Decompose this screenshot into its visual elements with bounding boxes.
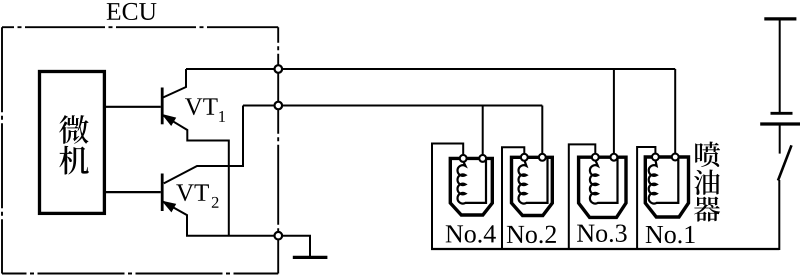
node: No.2 right terminal bbox=[539, 154, 546, 161]
label No.3 bbox=[577, 224, 627, 242]
injector No.2 body bbox=[512, 157, 553, 215]
node: ECU terminal 2 bbox=[275, 102, 283, 110]
node: ECU terminal 1 bbox=[275, 65, 283, 73]
wire: common bottom bus of injectors bbox=[431, 248, 779, 250]
injector No.4 body bbox=[450, 158, 492, 215]
node: No.4 left terminal bbox=[460, 155, 467, 162]
microcomputer box (微机) bbox=[40, 72, 105, 214]
wire: drop to No.1 injector bbox=[674, 69, 676, 157]
injector coil No.2 bbox=[519, 158, 548, 203]
injector coil No.3 bbox=[590, 158, 618, 203]
label No.1 bbox=[646, 226, 695, 244]
wire: feed for injector No.4 (left riser and top link) bbox=[432, 144, 463, 250]
injector No.3 body bbox=[579, 157, 626, 217]
wire: drop to No.2 injector bbox=[541, 106, 543, 158]
wire: second bus (VT2 collector rail) bbox=[243, 104, 542, 106]
node: No.1 left terminal bbox=[652, 154, 659, 161]
wire: feed for injector No.2 (left riser and top link) bbox=[502, 147, 524, 249]
switch S (ignition) bbox=[778, 145, 792, 180]
wire: switch to bottom bus bbox=[778, 180, 780, 250]
label 微机 (microcomputer) bbox=[59, 115, 89, 174]
node: No.3 left terminal bbox=[592, 154, 599, 161]
transistor VT2 bbox=[104, 106, 274, 236]
wire: positive supply stub (T terminal) bbox=[764, 19, 796, 113]
node: No.4 right terminal bbox=[479, 155, 486, 162]
node: No.3 right terminal bbox=[610, 154, 617, 161]
label VT1 bbox=[185, 98, 225, 122]
ECU enclosure (dash-dot box) bbox=[2, 27, 278, 273]
label 喷油器 (injector) bbox=[694, 142, 720, 222]
transistor VT1 bbox=[104, 69, 228, 236]
wire: feed for injector No.1 (left riser and top link) bbox=[637, 147, 655, 249]
node: No.1 right terminal bbox=[672, 154, 679, 161]
battery GB bbox=[760, 113, 800, 153]
wire: top bus (VT1 collector rail) bbox=[186, 68, 675, 70]
node: No.2 left terminal bbox=[521, 154, 528, 161]
wire: feed for injector No.3 (left riser and top link) bbox=[569, 144, 596, 249]
wire: drop to No.4 injector bbox=[482, 106, 484, 159]
injector coil No.1 bbox=[649, 158, 679, 204]
injector coil No.4 bbox=[458, 159, 486, 203]
label No.4 bbox=[446, 225, 496, 242]
node: ECU terminal 3 bbox=[275, 232, 283, 240]
label VT2 bbox=[176, 184, 218, 207]
label ECU bbox=[107, 3, 157, 20]
label No.2 bbox=[507, 226, 556, 244]
wire: drop to No.3 injector bbox=[613, 69, 615, 157]
injector No.1 body bbox=[645, 157, 688, 217]
ground bbox=[282, 236, 328, 258]
